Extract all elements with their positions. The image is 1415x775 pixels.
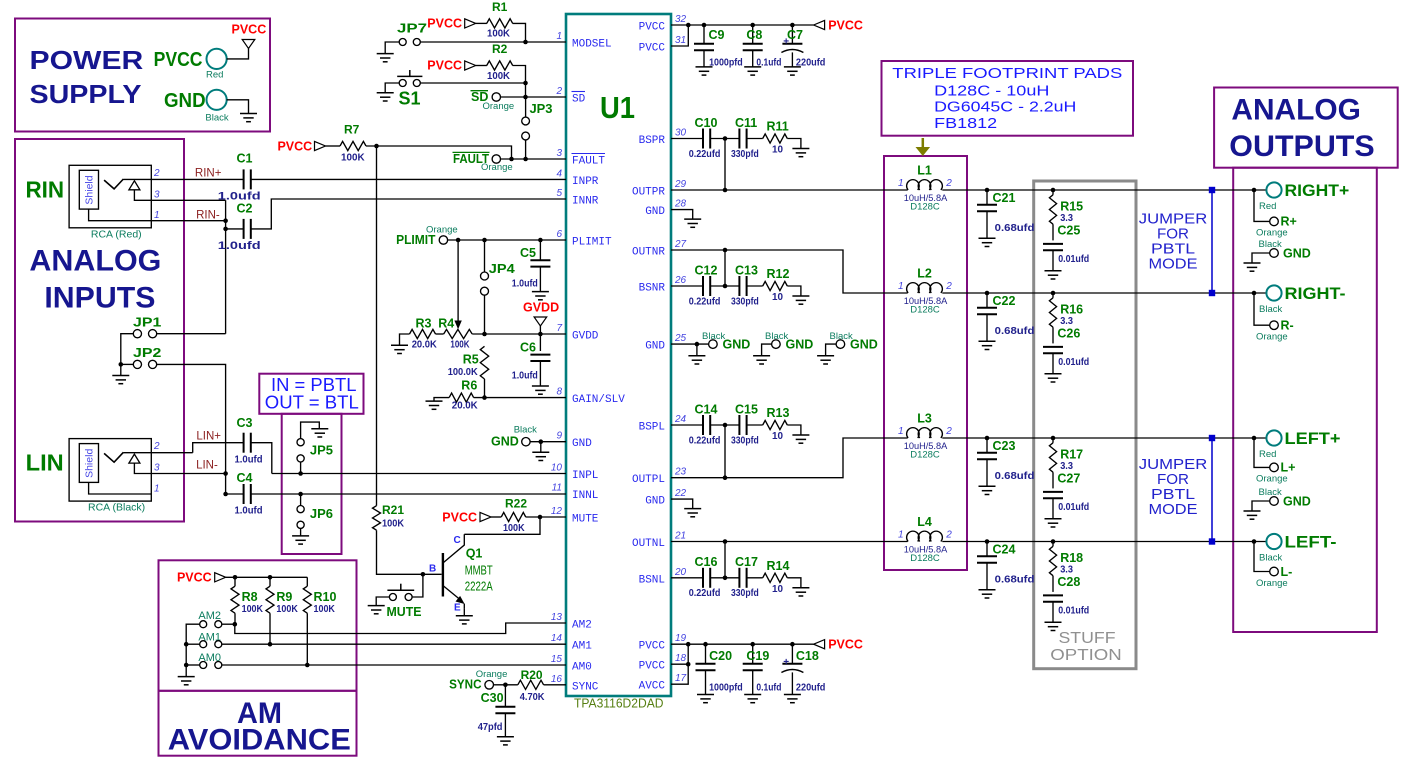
svg-text:C16: C16 xyxy=(695,555,718,569)
wire GND terminal to ground xyxy=(227,100,249,114)
ground (pin 28) xyxy=(684,219,701,227)
ground (MUTE) xyxy=(368,606,385,614)
wire C14 to C15 xyxy=(710,424,739,426)
junction (OUTNL/bootstrap) xyxy=(723,539,728,544)
U1 pin 9 GND label xyxy=(556,431,592,451)
svg-text:100K: 100K xyxy=(276,604,298,615)
svg-text:28: 28 xyxy=(674,199,687,210)
junction (R7 output) xyxy=(374,144,379,149)
junction (AM1 left) xyxy=(184,642,189,647)
svg-text:R13: R13 xyxy=(767,406,790,420)
wire RIN- row (pin1) xyxy=(151,220,225,222)
svg-text:D128C: D128C xyxy=(910,305,940,316)
svg-text:9: 9 xyxy=(556,431,562,442)
svg-text:13: 13 xyxy=(551,612,563,623)
svg-text:PVCC: PVCC xyxy=(828,18,863,32)
svg-text:100K: 100K xyxy=(487,71,511,82)
capacitor C22 0.68ufd xyxy=(977,293,1034,341)
svg-text:R8: R8 xyxy=(242,590,258,604)
svg-text:1: 1 xyxy=(898,426,904,437)
wire C10 to C11 xyxy=(710,138,739,140)
svg-text:R21: R21 xyxy=(382,503,404,517)
wire C2 to pin 5 INNR xyxy=(251,199,566,229)
wire JP7 to ground xyxy=(385,42,399,54)
wire R12 to ground xyxy=(787,286,801,296)
junction (AM0 left) xyxy=(184,663,189,668)
ground (C8) xyxy=(744,67,761,75)
ground (C26) xyxy=(1045,374,1062,382)
snubber R17 3.3 / C27 0.01ufd xyxy=(1043,438,1089,519)
svg-text:PVCC: PVCC xyxy=(277,139,312,153)
wire S1 to junction xyxy=(420,82,525,84)
svg-text:C: C xyxy=(454,535,461,546)
ground (C20) xyxy=(697,695,714,703)
switch S1 xyxy=(397,70,422,109)
capacitor C1 1.0ufd xyxy=(218,151,261,202)
U1 pin 2 SD label xyxy=(555,86,585,106)
svg-text:+: + xyxy=(783,657,789,668)
svg-text:R+: R+ xyxy=(1281,215,1297,229)
U1 pin 21 OUTNL label xyxy=(632,531,686,551)
junction (AM0/R10) xyxy=(305,663,310,668)
wire pin25 gnd stem xyxy=(696,344,698,356)
wire C15 to R13 xyxy=(747,424,763,426)
svg-text:+: + xyxy=(783,37,789,48)
inductor L1 10uH xyxy=(898,163,952,212)
svg-text:BSPL: BSPL xyxy=(639,422,665,434)
U1 pin 23 OUTPL label xyxy=(632,467,687,487)
U1 pin 11 INNL label xyxy=(552,483,599,503)
junction (C12/C13) xyxy=(723,284,728,289)
svg-text:JP4: JP4 xyxy=(489,261,516,276)
svg-text:Orange: Orange xyxy=(1256,228,1288,239)
wire pin 30 BSPR row xyxy=(671,138,703,140)
wire pin 28 GND stub xyxy=(671,210,693,219)
svg-text:Shield: Shield xyxy=(84,175,96,204)
junction (R1/MODSEL) xyxy=(523,40,528,45)
terminal RIGHT- xyxy=(1252,284,1346,315)
svg-text:C1: C1 xyxy=(237,151,253,165)
power flag PVCC (AM) xyxy=(177,571,226,585)
capacitor C13 330pfd xyxy=(731,263,759,307)
U1 pin 17 AVCC label xyxy=(639,673,687,693)
junction (C24 tap) xyxy=(985,539,990,544)
svg-text:AVCC: AVCC xyxy=(639,681,666,693)
svg-text:31: 31 xyxy=(675,35,686,46)
svg-text:100K: 100K xyxy=(314,604,336,615)
svg-text:B: B xyxy=(429,564,436,575)
ground (C7) xyxy=(784,67,801,75)
power flag PVCC (R1) xyxy=(427,17,475,31)
junction (C21 tap) xyxy=(985,188,990,193)
svg-text:330pfd: 330pfd xyxy=(731,149,759,160)
svg-text:4.70K: 4.70K xyxy=(520,692,546,703)
IN=PBTL OUT=BTL note box xyxy=(259,374,363,414)
svg-text:PVCC: PVCC xyxy=(828,638,863,652)
U1 pin 27 OUTNR label xyxy=(632,239,687,259)
svg-text:6: 6 xyxy=(556,229,562,240)
wire L1 to RIGHT+ node xyxy=(942,189,1266,191)
wire pin 31 jog up xyxy=(671,25,688,46)
U1 pin 31 PVCC label xyxy=(639,35,687,55)
jumper JP6 xyxy=(297,494,333,536)
svg-text:47pfd: 47pfd xyxy=(478,722,503,733)
wire AM2 jog to pin 13 xyxy=(235,623,566,634)
svg-text:R6: R6 xyxy=(461,379,477,393)
svg-text:1.0ufd: 1.0ufd xyxy=(235,454,263,465)
U1 pin 26 BSNR label xyxy=(639,275,687,295)
svg-text:GND: GND xyxy=(1283,494,1311,508)
wire C1 to pin 4 INPR xyxy=(251,178,566,180)
ground (power supply) xyxy=(240,114,257,122)
svg-text:3: 3 xyxy=(556,148,562,159)
svg-text:R7: R7 xyxy=(344,123,360,137)
wire AM1 row to pin 14 xyxy=(222,643,566,645)
svg-text:1.0ufd: 1.0ufd xyxy=(235,506,263,517)
svg-text:21: 21 xyxy=(674,531,686,542)
wire S1 to ground xyxy=(385,83,399,93)
svg-text:16: 16 xyxy=(551,674,563,685)
svg-text:JP5: JP5 xyxy=(310,443,333,458)
svg-text:C12: C12 xyxy=(695,263,718,277)
wire LIN- vertical to C4 row xyxy=(225,474,227,495)
junction (JP3/FAULT) xyxy=(523,157,528,162)
U1 pin 5 INNR label xyxy=(556,188,598,208)
wire pin 26 BSNR row xyxy=(671,285,703,287)
svg-text:BSPR: BSPR xyxy=(639,135,666,147)
svg-text:TPA3116D2DAD: TPA3116D2DAD xyxy=(574,697,664,711)
svg-text:1: 1 xyxy=(898,281,904,292)
svg-text:INPUTS: INPUTS xyxy=(44,281,155,314)
resistor R13 10 xyxy=(763,406,790,442)
svg-text:11: 11 xyxy=(552,483,562,494)
svg-text:PVCC: PVCC xyxy=(639,22,666,34)
svg-text:R11: R11 xyxy=(767,120,789,134)
svg-text:GND: GND xyxy=(645,496,665,508)
power flag PVCC (R22) xyxy=(442,510,491,524)
junction (C5 tap) xyxy=(538,238,543,243)
svg-text:0.68ufd: 0.68ufd xyxy=(995,471,1035,482)
svg-text:10: 10 xyxy=(772,292,783,303)
svg-text:MUTE: MUTE xyxy=(387,605,422,619)
svg-text:26: 26 xyxy=(674,275,687,286)
junction (C10/C11 bootstrap R) xyxy=(723,136,728,141)
ground (AM bus) xyxy=(178,677,195,685)
wire R11 to ground xyxy=(787,139,801,149)
heading AM AVOIDANCE xyxy=(168,697,351,757)
triple footprint pads note box xyxy=(882,61,1134,136)
svg-text:AVOIDANCE: AVOIDANCE xyxy=(168,724,351,757)
svg-text:C21: C21 xyxy=(993,191,1016,205)
svg-text:GND: GND xyxy=(645,341,665,353)
ground (R6) xyxy=(426,401,443,409)
svg-text:S1: S1 xyxy=(399,89,421,109)
wire RIN jack pin3 down xyxy=(151,199,225,201)
wire C3 to INPL row xyxy=(251,443,272,474)
svg-text:25: 25 xyxy=(674,333,687,344)
U1 pin 8 GAIN/SLV label xyxy=(556,387,625,407)
ground (C28) xyxy=(1045,622,1062,630)
svg-text:1: 1 xyxy=(154,210,160,221)
svg-text:Black: Black xyxy=(1259,553,1282,564)
ground (R3) xyxy=(391,345,408,353)
wire PVCC flag to R7 xyxy=(326,145,341,147)
wire R13 to ground xyxy=(787,425,801,435)
svg-text:2: 2 xyxy=(945,178,952,189)
svg-text:MMBT: MMBT xyxy=(465,564,493,578)
junction (R9 top) xyxy=(268,575,273,580)
wire JP2 ground stem xyxy=(120,364,122,375)
junction (Q1 base node) xyxy=(421,572,426,577)
U1 pin 24 BSPL label xyxy=(639,414,687,434)
capacitor C7 220ufd (polarized) xyxy=(781,25,825,68)
JP5/JP6 jumper box xyxy=(282,414,342,554)
svg-text:RCA (Black): RCA (Black) xyxy=(88,502,145,514)
inductor L3 10uH xyxy=(898,411,952,460)
wire R2 down to S1 net xyxy=(513,66,526,98)
svg-text:PVCC: PVCC xyxy=(442,510,477,524)
capacitor C10 0.22ufd xyxy=(689,116,721,160)
wire PVCC terminal to symbol xyxy=(227,49,249,59)
ground (C22) xyxy=(979,341,996,349)
svg-text:INPR: INPR xyxy=(572,176,599,188)
wire R1 to MODSEL net xyxy=(513,23,526,42)
svg-text:C28: C28 xyxy=(1057,575,1080,589)
snubber R16 3.3 / C26 0.01ufd xyxy=(1043,293,1089,374)
resistor R12 10 xyxy=(763,267,790,303)
junction (C19 tap) xyxy=(750,642,755,647)
svg-text:0.01ufd: 0.01ufd xyxy=(1058,254,1089,265)
heading ANALOG INPUTS xyxy=(29,244,161,314)
svg-text:RIN-: RIN- xyxy=(196,209,220,221)
svg-text:PLIMIT: PLIMIT xyxy=(572,237,612,249)
junction (SD net) xyxy=(523,95,528,100)
svg-text:C7: C7 xyxy=(787,28,803,42)
svg-text:GND: GND xyxy=(850,337,878,351)
ground (JP7) xyxy=(377,54,394,62)
svg-text:12: 12 xyxy=(551,506,563,517)
capacitor C3 1.0ufd xyxy=(235,416,263,465)
wire JP1 to RIN- vertical xyxy=(157,333,226,335)
svg-text:JP7: JP7 xyxy=(397,22,427,36)
svg-text:INPL: INPL xyxy=(572,470,598,482)
resistor R11 10 xyxy=(763,120,789,156)
resistor R5 100.0K xyxy=(448,346,489,379)
svg-text:LIN-: LIN- xyxy=(196,460,218,472)
jumper AM1 xyxy=(198,632,221,648)
wire C16 to C17 xyxy=(710,577,739,579)
svg-text:R17: R17 xyxy=(1060,447,1083,461)
capacitor C18 220ufd (polarized) xyxy=(781,644,825,694)
svg-text:FB1812: FB1812 xyxy=(934,115,997,132)
junction (FAULT/R7 net) xyxy=(509,157,514,162)
ground (JP5) xyxy=(311,429,328,437)
junction (C20 tap) xyxy=(703,642,708,647)
junction (pin18/rail) xyxy=(686,662,691,667)
wire AM jumpers left bus xyxy=(186,624,200,676)
junction (R17 tap) xyxy=(1051,436,1056,441)
svg-text:20.0K: 20.0K xyxy=(412,339,438,350)
svg-text:0.22ufd: 0.22ufd xyxy=(689,149,721,160)
ground (GND left) xyxy=(1244,511,1261,519)
junction (JP2 ground node) xyxy=(119,362,124,367)
svg-text:14: 14 xyxy=(551,633,563,644)
svg-text:RIN+: RIN+ xyxy=(195,167,222,179)
svg-text:R4: R4 xyxy=(438,317,454,331)
wire MODSEL net (JP7 to pin 1) xyxy=(420,41,566,43)
svg-text:PVCC: PVCC xyxy=(427,59,462,73)
svg-text:R12: R12 xyxy=(767,267,790,281)
wire pin 20 BSNL row xyxy=(671,577,703,579)
resistor R10 100K xyxy=(303,577,336,665)
resistor R7 100K xyxy=(340,123,366,164)
svg-text:L4: L4 xyxy=(917,515,932,529)
snubber R18 3.3 / C28 0.01ufd xyxy=(1043,542,1089,623)
stuff option box xyxy=(1034,181,1136,669)
svg-text:LIN: LIN xyxy=(26,450,64,476)
svg-text:RCA (Red): RCA (Red) xyxy=(91,228,142,240)
junction (pin 25 gnd) xyxy=(695,342,700,347)
junction (R5 bottom) xyxy=(482,395,487,400)
svg-text:PVCC: PVCC xyxy=(154,49,203,71)
junction (C30 tap) xyxy=(503,683,508,688)
svg-text:C18: C18 xyxy=(796,649,819,663)
svg-text:POWER: POWER xyxy=(30,45,144,75)
jumper JP5 xyxy=(297,422,333,473)
ground (R13) xyxy=(792,435,809,443)
terminal PVCC (power supply) xyxy=(154,49,227,81)
PBTL jumper wire (right channel) xyxy=(1209,187,1215,296)
heading ANALOG OUTPUTS xyxy=(1229,94,1374,164)
svg-text:FAULT: FAULT xyxy=(572,156,605,168)
svg-text:SYNC: SYNC xyxy=(572,681,599,693)
svg-text:C25: C25 xyxy=(1057,224,1080,238)
wire pin 25 GND row xyxy=(671,343,708,345)
U1 pin 30 BSPR label xyxy=(639,128,687,148)
ground (GND terminal 3) xyxy=(817,356,834,364)
svg-text:INNL: INNL xyxy=(572,490,598,502)
note JUMPER FOR PBTL MODE (left) xyxy=(1139,456,1208,518)
capacitor C21 0.68ufd xyxy=(977,190,1034,238)
junction (pin19 vertical) xyxy=(686,642,691,647)
U1 pin 13 AM2 label xyxy=(551,612,592,632)
wire MUTE switch to ground xyxy=(376,597,389,606)
terminal L- xyxy=(1254,542,1292,589)
svg-text:C15: C15 xyxy=(735,402,758,416)
wire AM2 to R8 xyxy=(222,623,235,625)
svg-text:3.3: 3.3 xyxy=(1060,213,1073,224)
svg-text:GND: GND xyxy=(723,337,751,351)
wire GND terminal to pin 9 xyxy=(530,441,566,443)
junction (C18 tap) xyxy=(790,642,795,647)
ground (C21) xyxy=(979,238,996,246)
wire PVCC flag to R22 xyxy=(491,516,501,518)
ground (C24) xyxy=(979,590,996,598)
svg-text:INNR: INNR xyxy=(572,196,599,208)
svg-text:0.68ufd: 0.68ufd xyxy=(995,223,1035,234)
svg-text:C17: C17 xyxy=(735,555,758,569)
wire R3 to ground xyxy=(400,334,410,345)
ground (C9) xyxy=(696,67,713,75)
wire SD row to JP3 xyxy=(525,97,527,117)
svg-text:GVDD: GVDD xyxy=(523,301,559,315)
connector LIN (RCA Black) xyxy=(26,439,193,514)
capacitor C2 1.0ufd xyxy=(218,201,261,252)
svg-text:AM2: AM2 xyxy=(572,620,592,632)
svg-text:5: 5 xyxy=(556,188,562,199)
svg-text:0.22ufd: 0.22ufd xyxy=(689,588,721,599)
svg-text:D128C: D128C xyxy=(910,202,940,213)
terminal LEFT+ xyxy=(1252,429,1341,460)
ground (JP2) xyxy=(112,376,129,384)
wire R22 to pin 12 xyxy=(526,516,566,518)
ground (C5) xyxy=(532,292,549,300)
ground (C18) xyxy=(784,695,801,703)
wire AM1 left stub xyxy=(186,643,200,645)
wire bootstrap to BSNL xyxy=(724,542,726,578)
wire bootstrap to OUTPL xyxy=(724,425,726,478)
svg-text:Orange: Orange xyxy=(483,101,515,112)
resistor R1 100K xyxy=(487,0,513,40)
U1 pin 19 PVCC label xyxy=(639,633,687,653)
wire SYNC terminal to R20 xyxy=(494,684,518,686)
svg-text:27: 27 xyxy=(674,239,687,250)
svg-text:D128C: D128C xyxy=(910,553,940,564)
capacitor C23 0.68ufd xyxy=(977,438,1034,486)
svg-text:OUTNR: OUTNR xyxy=(632,247,665,259)
svg-text:R16: R16 xyxy=(1060,302,1083,316)
svg-text:0.22ufd: 0.22ufd xyxy=(689,296,721,307)
analog outputs section box xyxy=(1233,168,1377,632)
net label LIN- xyxy=(196,460,218,472)
svg-text:MODE: MODE xyxy=(1149,501,1198,518)
svg-text:U1: U1 xyxy=(600,90,635,125)
wire AM0 row to pin 15 xyxy=(222,664,566,666)
svg-text:18: 18 xyxy=(675,653,687,664)
svg-text:Orange: Orange xyxy=(1256,474,1288,485)
ground (C23) xyxy=(979,486,996,494)
ground (R12) xyxy=(792,296,809,304)
svg-text:MUTE: MUTE xyxy=(572,514,599,526)
R4 wiper arrow xyxy=(454,321,461,330)
svg-text:C13: C13 xyxy=(735,263,758,277)
wire OUTNL row (pin 21 to L4) xyxy=(671,541,908,543)
U1 pin 18 PVCC label xyxy=(639,653,687,673)
ground (R11) xyxy=(792,149,809,157)
wire PVCC flag to R2 xyxy=(476,65,487,67)
wire LIN+ jog up to C3 row xyxy=(193,443,244,453)
svg-text:100K: 100K xyxy=(450,339,470,350)
jumper JP3 xyxy=(522,102,553,140)
note IN=PBTL OUT=BTL xyxy=(265,375,359,413)
jumper JP4 xyxy=(481,240,516,334)
svg-text:R18: R18 xyxy=(1060,551,1083,565)
wire L3 to LEFT+ node xyxy=(942,437,1266,439)
junction (JP6/INNL) xyxy=(298,492,303,497)
svg-text:L2: L2 xyxy=(917,266,932,280)
svg-text:BSNR: BSNR xyxy=(639,283,666,295)
junction (JP5/INPL) xyxy=(298,471,303,476)
svg-text:Orange: Orange xyxy=(1256,578,1288,589)
jumper JP1 xyxy=(133,315,161,337)
svg-text:L3: L3 xyxy=(917,411,932,425)
junction (C9 tap) xyxy=(702,23,707,28)
svg-text:GND: GND xyxy=(786,337,814,351)
wire Q1 collector to MUTE pin net xyxy=(464,517,540,534)
wire PVCC rail (AM) xyxy=(226,576,308,578)
wire SD terminal to pin 2 xyxy=(501,96,567,98)
junction (AM1/R9) xyxy=(268,642,273,647)
